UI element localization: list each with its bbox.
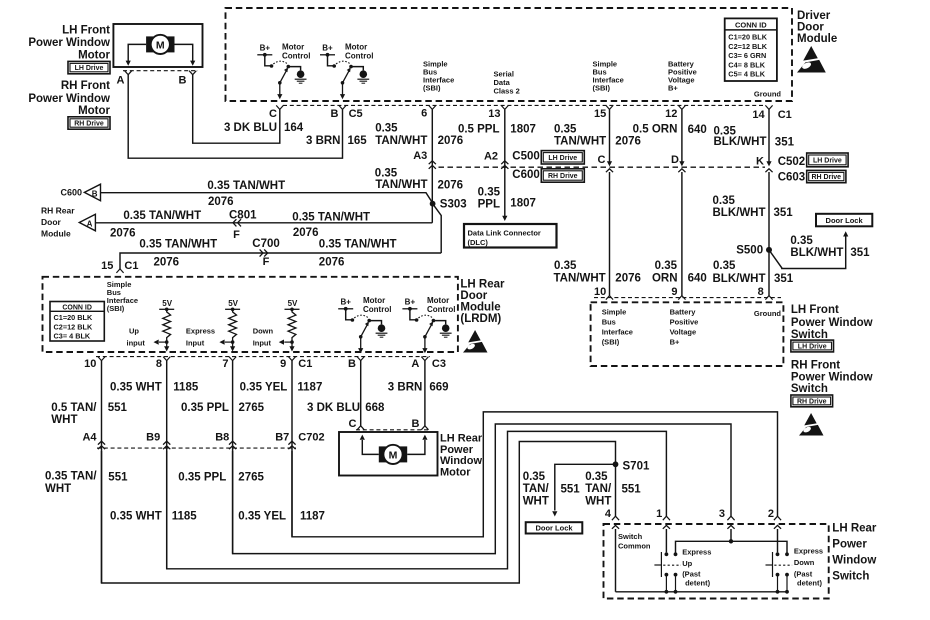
svg-text:Up: Up bbox=[129, 327, 139, 336]
label: Ground at DDM pin 14 bbox=[754, 90, 781, 99]
svg-text:B8: B8 bbox=[215, 432, 229, 444]
label: Switch Common bbox=[618, 532, 651, 551]
svg-text:RH Drive: RH Drive bbox=[797, 399, 827, 406]
wire: motor M2 brush leads bbox=[360, 435, 428, 455]
label: Express Up (Past detent) bbox=[682, 548, 711, 588]
svg-text:TAN/: TAN/ bbox=[585, 483, 612, 495]
svg-text:4: 4 bbox=[605, 508, 612, 520]
svg-text:551: 551 bbox=[108, 472, 128, 484]
wire label: 0.35 PPL 2765 (pin 7 upper) bbox=[181, 402, 265, 414]
svg-text:C2=12 BLK: C2=12 BLK bbox=[728, 42, 767, 51]
svg-text:Data Link Connector: Data Link Connector bbox=[468, 229, 541, 238]
svg-text:2076: 2076 bbox=[615, 273, 641, 285]
svg-text:351: 351 bbox=[774, 207, 794, 219]
svg-text:1187: 1187 bbox=[300, 511, 325, 523]
svg-text:PPL: PPL bbox=[478, 199, 500, 211]
svg-text:Door: Door bbox=[460, 290, 487, 302]
label: LH Front Power Window Motor bbox=[28, 25, 110, 62]
wire: motor M1 brush leads bbox=[126, 44, 196, 65]
pin 8 (LRDM) bbox=[156, 358, 162, 370]
svg-text:B+: B+ bbox=[670, 338, 680, 347]
svg-text:C: C bbox=[598, 154, 606, 166]
wire: B8 (0.35 PPL) to rear switch pin 3 bbox=[233, 424, 731, 554]
svg-text:3 BRN: 3 BRN bbox=[306, 135, 341, 147]
svg-text:Common: Common bbox=[618, 542, 651, 551]
svg-text:C801: C801 bbox=[229, 210, 257, 222]
svg-text:Switch: Switch bbox=[791, 383, 828, 395]
svg-text:(Past: (Past bbox=[682, 570, 701, 579]
wire label: 0.35 TAN/WHT 2076 (C600 row) bbox=[207, 180, 285, 208]
connector B7 bbox=[275, 432, 289, 444]
svg-text:0.35: 0.35 bbox=[713, 195, 736, 207]
module: LH Rear Door Module dashed box bbox=[43, 277, 458, 352]
svg-text:RH Drive: RH Drive bbox=[812, 174, 842, 181]
svg-text:Down: Down bbox=[794, 558, 815, 567]
label/arrow: Up input bbox=[127, 327, 167, 348]
wire: C600-B to S303 (0.35 TAN/WHT 2076) bbox=[101, 193, 433, 203]
svg-text:Motor: Motor bbox=[282, 43, 304, 52]
svg-text:B: B bbox=[348, 358, 356, 370]
svg-text:WHT: WHT bbox=[51, 414, 77, 426]
wire label: 3 DK BLU 164 bbox=[224, 122, 304, 134]
svg-text:0.35 TAN/WHT: 0.35 TAN/WHT bbox=[139, 239, 217, 251]
svg-text:0.35: 0.35 bbox=[375, 123, 398, 135]
tag box: RH Drive bbox=[68, 117, 110, 129]
svg-text:LH Front: LH Front bbox=[62, 25, 110, 37]
svg-text:Power: Power bbox=[832, 539, 867, 551]
label: Driver Door Module bbox=[797, 10, 837, 45]
svg-text:detent): detent) bbox=[685, 579, 711, 588]
svg-text:C3= 4 BLK: C3= 4 BLK bbox=[54, 332, 91, 341]
svg-text:Switch: Switch bbox=[832, 571, 869, 583]
svg-text:1187: 1187 bbox=[297, 381, 322, 393]
label: Serial Data Class 2 at DDM pin 13 bbox=[494, 70, 520, 96]
svg-text:0.35: 0.35 bbox=[585, 471, 608, 483]
svg-text:M: M bbox=[389, 449, 398, 461]
wire: pin 1 into express up switch bbox=[663, 525, 670, 552]
pin 12 (DDM) bbox=[665, 108, 677, 120]
svg-text:0.5 TAN/: 0.5 TAN/ bbox=[51, 402, 97, 414]
label/arrow: Down Input bbox=[253, 327, 292, 348]
svg-text:551: 551 bbox=[108, 402, 128, 414]
wire label: 0.35 PPL 2765 (B8 lower) bbox=[178, 472, 264, 484]
wire: S701 branch to Door Lock bbox=[552, 464, 615, 516]
box: Door Lock (upper) bbox=[816, 214, 872, 227]
svg-text:LH Rear: LH Rear bbox=[440, 433, 483, 445]
svg-text:0.35: 0.35 bbox=[554, 260, 577, 272]
svg-text:Driver: Driver bbox=[797, 10, 831, 22]
wire label: 0.35 TAN/WHT (left of C801) bbox=[123, 210, 201, 222]
svg-text:RH Rear: RH Rear bbox=[41, 206, 75, 216]
svg-text:CONN ID: CONN ID bbox=[735, 21, 767, 30]
svg-text:Positive: Positive bbox=[670, 318, 699, 327]
svg-text:Motor: Motor bbox=[363, 296, 385, 305]
module: LH Rear Power Window Switch dashed box bbox=[604, 524, 829, 599]
svg-text:BLK/WHT: BLK/WHT bbox=[713, 273, 766, 285]
svg-text:14: 14 bbox=[752, 109, 765, 121]
label: Motor Control 1 (LRDM) bbox=[363, 296, 391, 314]
connector labels C500/LH C600/RH bbox=[512, 151, 584, 183]
tag box: LH Drive bbox=[68, 61, 110, 73]
svg-text:K: K bbox=[756, 155, 764, 167]
connector C801 (inline, F) bbox=[229, 210, 257, 242]
connector A2 (inline) bbox=[484, 151, 508, 169]
wire: LRDM pin 9 (down input) down bbox=[291, 361, 293, 537]
svg-text:(SBI): (SBI) bbox=[602, 338, 620, 347]
svg-text:RH Drive: RH Drive bbox=[548, 173, 578, 180]
svg-text:BLK/WHT: BLK/WHT bbox=[790, 247, 843, 259]
label: Simple Bus Interface (SBI) (LRDM) bbox=[107, 280, 138, 313]
splice S701 bbox=[613, 461, 650, 473]
svg-text:0.35 TAN/WHT: 0.35 TAN/WHT bbox=[319, 239, 397, 251]
wire label: 0.35 TAN/WHT (right of C801) bbox=[292, 212, 370, 224]
resistor: Express input pull-up (5V) bbox=[225, 299, 240, 352]
svg-text:B+: B+ bbox=[668, 84, 678, 93]
svg-text:351: 351 bbox=[775, 136, 795, 148]
connector line: LRDM bottom edge bbox=[96, 357, 430, 361]
pin C1 (LRDM) bbox=[298, 358, 312, 370]
label/arrow: Express Input bbox=[186, 327, 233, 348]
wire label: 3 BRN 669 (wire A) bbox=[388, 381, 449, 393]
label: Motor Control 2 bbox=[345, 43, 373, 61]
pin C (DDM) bbox=[269, 108, 277, 120]
svg-text:M: M bbox=[156, 39, 165, 51]
wire: pin 2 into express down switch bbox=[774, 525, 781, 552]
wire: DDM pin 15 SBI to LH front switch pin 10 bbox=[606, 109, 613, 299]
svg-text:Down: Down bbox=[253, 327, 274, 336]
svg-text:F: F bbox=[263, 256, 270, 268]
svg-text:S303: S303 bbox=[440, 199, 467, 211]
ESD symbol (LRDM) bbox=[463, 330, 487, 353]
pin 8 (front switch) bbox=[758, 286, 764, 298]
wire: DDM pin 13 serial data to DLC bbox=[502, 109, 507, 221]
svg-text:B+: B+ bbox=[260, 44, 271, 53]
svg-text:C3: C3 bbox=[432, 358, 446, 370]
connector line: motor M1 (A/B) bbox=[123, 71, 198, 75]
pin 10 (front switch) bbox=[594, 286, 606, 298]
svg-text:3 DK BLU: 3 DK BLU bbox=[307, 402, 360, 414]
wire label: 0.5 PPL 1807 bbox=[458, 124, 536, 136]
pin 13 (DDM) bbox=[488, 108, 500, 120]
svg-text:Power Window: Power Window bbox=[791, 317, 873, 329]
svg-text:B+: B+ bbox=[340, 298, 351, 307]
wire label: 0.35 BLK/WHT 351 (upper) bbox=[714, 126, 795, 149]
resistor: Up input pull-up (5V) bbox=[159, 299, 174, 352]
svg-text:0.35: 0.35 bbox=[790, 235, 813, 247]
wire: LRDM pin 7 (express) down bbox=[232, 361, 234, 554]
svg-text:WHT: WHT bbox=[585, 495, 611, 507]
svg-text:Switch: Switch bbox=[618, 532, 643, 541]
switch: Motor Control 2 (DDM) w/ B+ and ground bbox=[320, 44, 369, 100]
svg-text:A: A bbox=[411, 358, 419, 370]
svg-text:Motor: Motor bbox=[78, 50, 110, 62]
svg-text:C1: C1 bbox=[778, 109, 792, 121]
svg-text:2076: 2076 bbox=[615, 136, 641, 148]
svg-text:0.35: 0.35 bbox=[523, 471, 546, 483]
svg-text:8: 8 bbox=[758, 286, 764, 298]
svg-text:Express: Express bbox=[682, 548, 711, 557]
pin 9 (LRDM) bbox=[280, 358, 286, 370]
svg-text:351: 351 bbox=[774, 273, 794, 285]
pin C3 (LRDM) bbox=[432, 358, 446, 370]
svg-text:2076: 2076 bbox=[293, 227, 319, 239]
actuator: Express Up bbox=[654, 552, 681, 577]
svg-text:12: 12 bbox=[665, 108, 677, 120]
svg-text:input: input bbox=[127, 339, 146, 348]
connector C702 bbox=[298, 432, 324, 444]
svg-text:A4: A4 bbox=[82, 432, 97, 444]
label: LH Rear Power Window Switch bbox=[832, 523, 877, 583]
svg-text:6: 6 bbox=[421, 108, 427, 120]
svg-text:C1: C1 bbox=[298, 358, 312, 370]
svg-text:(Past: (Past bbox=[794, 570, 813, 579]
pin C5 (DDM) bbox=[349, 108, 363, 120]
svg-text:C1=20 BLK: C1=20 BLK bbox=[728, 33, 767, 42]
svg-text:RH Front: RH Front bbox=[61, 80, 110, 92]
svg-text:13: 13 bbox=[488, 108, 500, 120]
wire: C700 row to LRDM pin 15 (0.35 TAN/WHT 2076) bbox=[120, 253, 441, 269]
wire: S500 branch to Door Lock bbox=[769, 231, 848, 268]
svg-text:C600: C600 bbox=[512, 169, 540, 181]
wire label: 0.35 WHT 1185 (pin 8 upper) bbox=[110, 381, 199, 393]
label: Battery Positive Voltage B+ (front switch) bbox=[670, 308, 699, 347]
wire: DDM pin C to motor M1 terminal B (3 DK BLU 164) bbox=[193, 75, 280, 144]
svg-text:0.35: 0.35 bbox=[478, 187, 501, 199]
pin 14 (DDM) bbox=[752, 109, 765, 121]
svg-text:551: 551 bbox=[622, 484, 642, 496]
wire label: 0.35 TAN/WHT (left of C700) bbox=[139, 239, 217, 251]
svg-text:TAN/WHT: TAN/WHT bbox=[375, 135, 427, 147]
svg-text:(SBI): (SBI) bbox=[593, 84, 611, 93]
svg-text:WHT: WHT bbox=[523, 495, 549, 507]
label: RH Front Power Window Switch bbox=[791, 360, 873, 396]
wire: triangle A to S303 via C801 (0.35 TAN/WHT 2076) bbox=[95, 222, 432, 224]
svg-text:1: 1 bbox=[656, 508, 662, 520]
svg-text:C502: C502 bbox=[778, 156, 806, 168]
svg-text:Up: Up bbox=[682, 559, 692, 568]
svg-text:Module: Module bbox=[41, 228, 71, 238]
svg-text:A: A bbox=[117, 75, 125, 87]
svg-text:LH Drive: LH Drive bbox=[75, 65, 104, 72]
svg-text:Control: Control bbox=[345, 52, 373, 61]
pin 9 (front switch) bbox=[671, 286, 677, 298]
wire: LRDM pin B to rear motor bbox=[357, 361, 364, 430]
svg-text:8: 8 bbox=[156, 358, 162, 370]
svg-text:B: B bbox=[92, 189, 98, 198]
svg-text:LH Rear: LH Rear bbox=[460, 279, 505, 291]
svg-text:0.35 YEL: 0.35 YEL bbox=[238, 511, 286, 523]
svg-text:B+: B+ bbox=[322, 44, 333, 53]
label: LH Rear Power Window Motor bbox=[440, 433, 483, 479]
wire: B9 (0.35 WHT) to rear switch pin 1 bbox=[167, 431, 667, 568]
wire: LRDM pin 8 (up input) down bbox=[166, 361, 168, 569]
svg-text:3 DK BLU: 3 DK BLU bbox=[224, 122, 277, 134]
svg-text:Power: Power bbox=[440, 444, 474, 456]
off-page connector: C600 triangle B bbox=[60, 184, 100, 201]
svg-text:Motor: Motor bbox=[440, 466, 471, 478]
svg-text:C5= 4 BLK: C5= 4 BLK bbox=[728, 70, 765, 79]
svg-text:Power Window: Power Window bbox=[28, 37, 110, 49]
svg-text:Module: Module bbox=[797, 33, 837, 45]
wire label: 0.35 TAN/WHT 2076 (pin 15 upper) bbox=[554, 124, 641, 148]
svg-text:165: 165 bbox=[348, 135, 368, 147]
tag box: LH Drive (front switch) bbox=[791, 340, 834, 352]
splice S303 bbox=[430, 199, 467, 211]
wire label: 0.35 BLK/WHT 351 (door lock branch) bbox=[790, 235, 870, 259]
actuator: Express Down bbox=[766, 552, 793, 577]
svg-text:3 BRN: 3 BRN bbox=[388, 381, 423, 393]
pin 6 (DDM) bbox=[421, 108, 427, 120]
svg-text:0.35 TAN/WHT: 0.35 TAN/WHT bbox=[123, 210, 201, 222]
wire label: 0.35 TAN/WHT 551 (A4 lower) bbox=[45, 471, 128, 495]
wire label: 0.35 YEL 1187 (B7 lower) bbox=[238, 511, 325, 523]
svg-text:Switch: Switch bbox=[791, 329, 828, 341]
svg-text:Power Window: Power Window bbox=[791, 372, 873, 384]
svg-text:F: F bbox=[233, 229, 240, 241]
svg-text:B7: B7 bbox=[275, 432, 289, 444]
label: Simple Bus Interface (SBI) at DDM pin 15 bbox=[593, 60, 624, 93]
resistor: Down input pull-up (5V) bbox=[285, 299, 300, 352]
svg-text:Door Lock: Door Lock bbox=[535, 524, 573, 533]
switch: Motor Control 1 (LRDM) bbox=[338, 298, 387, 354]
svg-text:TAN/: TAN/ bbox=[523, 483, 550, 495]
svg-text:1807: 1807 bbox=[510, 124, 536, 136]
svg-text:B: B bbox=[412, 418, 420, 430]
connector symbol at D (pin12 wire) bbox=[671, 154, 685, 172]
connector line: front switch top bbox=[594, 297, 781, 299]
svg-text:2765: 2765 bbox=[239, 402, 265, 414]
wire label: 0.35 YEL 1187 (pin 9 upper) bbox=[240, 381, 323, 393]
svg-text:Express: Express bbox=[794, 547, 823, 556]
svg-text:(SBI): (SBI) bbox=[423, 84, 441, 93]
svg-text:Module: Module bbox=[460, 302, 500, 314]
svg-text:D: D bbox=[671, 154, 679, 166]
svg-text:A: A bbox=[87, 219, 93, 228]
switch: Express Up contacts bbox=[665, 552, 678, 593]
connector line: C500/C600 - C502/C603 row bbox=[439, 166, 766, 168]
svg-text:B9: B9 bbox=[146, 432, 160, 444]
wire label: 0.35 TAN/WHT (right of C700) bbox=[319, 239, 397, 251]
wire: DDM pin B to motor M1 terminal A (3 BRN 165) bbox=[128, 75, 342, 159]
svg-text:2076: 2076 bbox=[208, 196, 234, 208]
svg-text:0.35 TAN/: 0.35 TAN/ bbox=[45, 471, 97, 483]
module: LH Front Power Window Switch dashed box bbox=[591, 302, 784, 366]
svg-text:RH Drive: RH Drive bbox=[74, 121, 104, 128]
ESD symbol (Driver Door Module) bbox=[797, 46, 826, 73]
svg-text:2076: 2076 bbox=[154, 257, 180, 269]
svg-text:0.35 PPL: 0.35 PPL bbox=[178, 472, 226, 484]
svg-text:2076: 2076 bbox=[319, 257, 345, 269]
svg-text:C702: C702 bbox=[298, 432, 324, 444]
svg-text:0.35: 0.35 bbox=[655, 260, 678, 272]
svg-text:B+: B+ bbox=[405, 298, 416, 307]
svg-text:3: 3 bbox=[719, 508, 725, 520]
pin 3 (rear switch) bbox=[719, 508, 735, 520]
svg-text:Door Lock: Door Lock bbox=[826, 216, 864, 225]
label: LH Front Power Window Switch bbox=[791, 304, 873, 341]
pin 15 (DDM) bbox=[594, 108, 606, 120]
svg-text:Window: Window bbox=[440, 455, 482, 467]
label: Battery Positive Voltage B+ at DDM pin 12 bbox=[668, 60, 697, 93]
svg-text:Interface: Interface bbox=[602, 328, 633, 337]
svg-text:B: B bbox=[179, 75, 187, 87]
wire label: 0.35 TAN/WHT 2076 (pin 6 upper) bbox=[375, 123, 463, 148]
wire: A4 (0.35 TAN/WHT) to S701 and rear switch pin 4 bbox=[102, 442, 616, 584]
wire label: 3 DK BLU 668 (wire B) bbox=[307, 402, 385, 414]
pin 2 (rear switch) bbox=[768, 508, 781, 520]
svg-text:668: 668 bbox=[365, 402, 385, 414]
wire: B7 (0.35 YEL) to rear switch pin 2 bbox=[292, 412, 778, 537]
svg-text:10: 10 bbox=[594, 286, 606, 298]
wire label: 0.35 TAN/WHT 2076 (pin 15 lower) bbox=[554, 260, 641, 285]
pin B (DDM) bbox=[331, 108, 339, 120]
svg-text:10: 10 bbox=[84, 358, 96, 370]
wire label: 0.35 TAN/WHT 2076 (above S303) bbox=[375, 168, 463, 192]
wire: DDM pin 14 ground to LH front switch pin 8 bbox=[765, 109, 772, 299]
svg-text:Window: Window bbox=[832, 555, 876, 567]
wire: LRDM pin A to rear motor bbox=[421, 361, 428, 430]
pin 4 (rear switch) bbox=[605, 508, 619, 520]
module: Driver Door Module dashed outline bbox=[226, 8, 793, 101]
switch: Motor Control 2 (LRDM) bbox=[402, 298, 451, 354]
svg-text:2765: 2765 bbox=[238, 472, 264, 484]
wire: center bus between switches bbox=[676, 541, 788, 554]
svg-text:C600: C600 bbox=[60, 188, 82, 198]
wire: S303 down to C700 row bbox=[433, 204, 442, 253]
wire label: 0.5 TAN/WHT 551 (pin 10 upper) bbox=[51, 402, 127, 426]
svg-text:LH Rear: LH Rear bbox=[832, 523, 877, 535]
svg-text:2076: 2076 bbox=[438, 180, 464, 192]
svg-text:WHT: WHT bbox=[45, 483, 71, 495]
svg-text:0.5 ORN: 0.5 ORN bbox=[633, 123, 678, 135]
svg-text:(SBI): (SBI) bbox=[107, 304, 125, 313]
pin 1 (rear switch) bbox=[656, 508, 670, 520]
box: Data Link Connector (DLC) bbox=[464, 224, 557, 248]
pin label B (motor M1) bbox=[179, 75, 187, 87]
svg-text:Motor: Motor bbox=[78, 105, 110, 117]
svg-text:7: 7 bbox=[222, 358, 228, 370]
svg-text:LH Drive: LH Drive bbox=[548, 155, 577, 162]
wire label: 2076 (left of C801) bbox=[110, 228, 136, 240]
svg-text:BLK/WHT: BLK/WHT bbox=[713, 207, 766, 219]
svg-text:TAN/WHT: TAN/WHT bbox=[554, 136, 606, 148]
box: Door Lock (lower) bbox=[526, 522, 583, 533]
pin label A (motor M1) bbox=[117, 75, 125, 87]
label: RH Front Power Window Motor bbox=[28, 80, 110, 117]
svg-text:1185: 1185 bbox=[173, 381, 199, 393]
svg-text:LH Drive: LH Drive bbox=[813, 158, 842, 165]
svg-text:Motor: Motor bbox=[345, 43, 367, 52]
svg-text:2: 2 bbox=[768, 508, 774, 520]
wire label: 3 BRN 165 bbox=[306, 135, 367, 147]
wire label: 0.5 ORN 640 (upper) bbox=[633, 123, 707, 136]
svg-text:A2: A2 bbox=[484, 151, 498, 163]
label: Ground (front switch) bbox=[754, 309, 781, 318]
svg-text:C: C bbox=[269, 108, 277, 120]
svg-text:551: 551 bbox=[561, 484, 581, 496]
connector B8 bbox=[215, 432, 229, 444]
label: Simple Bus Interface (SBI) at DDM pin 6 bbox=[423, 60, 454, 93]
pin A (LRDM) bbox=[411, 358, 419, 370]
label: Express Down (Past detent) bbox=[794, 547, 823, 588]
svg-text:Control: Control bbox=[427, 305, 455, 314]
svg-text:S701: S701 bbox=[623, 461, 650, 473]
wire label: 0.35 WHT 1185 (B9 lower) bbox=[110, 511, 197, 523]
motor M2: LH Rear Power Window Motor bbox=[339, 432, 438, 476]
connector line: DDM bottom edge bbox=[276, 105, 772, 109]
svg-text:1807: 1807 bbox=[510, 198, 536, 210]
svg-text:C603: C603 bbox=[778, 171, 806, 183]
